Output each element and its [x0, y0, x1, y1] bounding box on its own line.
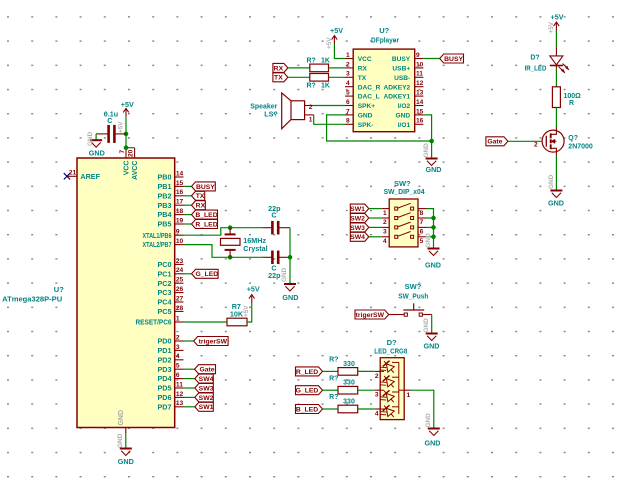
svg-text:12: 12 [416, 80, 424, 87]
svg-text:Q?: Q? [568, 135, 578, 142]
svg-text:10K: 10K [230, 310, 244, 319]
net label B_LED [296, 405, 339, 414]
svg-text:1: 1 [407, 392, 411, 399]
wire R to Q? drain [555, 108, 557, 128]
power +5V (above U?) [121, 100, 134, 117]
U? pin 4 PD2 [158, 353, 184, 364]
svg-text:5: 5 [176, 363, 180, 370]
svg-text:GND: GND [396, 113, 411, 120]
svg-text:GND: GND [281, 267, 288, 282]
ground GND (IR branch) [548, 191, 564, 208]
svg-text:U?: U? [379, 26, 389, 35]
SW? switch row 4 contacts [382, 232, 427, 246]
svg-text:D?: D? [530, 54, 539, 61]
svg-text:22p: 22p [268, 271, 281, 280]
svg-text:PB2: PB2 [158, 191, 172, 200]
svg-text:AREF: AREF [80, 172, 100, 181]
wire speaker pin2 to SPK+ [313, 105, 345, 107]
svg-text:SPK-: SPK- [358, 122, 374, 129]
net label SW3 (PD5) [184, 384, 214, 393]
svg-text:PB5: PB5 [158, 220, 172, 229]
net label RX (PB3) [184, 201, 206, 210]
power +5V (DFplayer) [330, 26, 343, 44]
svg-text:7: 7 [346, 108, 350, 115]
svg-text:IR_LED: IR_LED [525, 66, 547, 73]
U? DFplayer pin 12 ADKEY2 [383, 80, 423, 91]
svg-text:I/O2: I/O2 [398, 103, 411, 110]
wire R7 to +5V [247, 303, 252, 322]
svg-text:B_LED: B_LED [195, 212, 217, 219]
svg-text:27: 27 [176, 295, 184, 302]
svg-text:330: 330 [343, 380, 355, 387]
IC U? DFplayer body [353, 49, 415, 132]
ground GND (DFplayer) [426, 159, 442, 175]
svg-text:B_LED: B_LED [296, 406, 318, 413]
net label BUSY (PB1) [184, 182, 216, 191]
power +5V (IR branch) [551, 13, 564, 31]
U? DFplayer pin 7 GND [345, 108, 373, 119]
svg-text:G_LED: G_LED [196, 271, 219, 278]
svg-text:1: 1 [309, 116, 313, 123]
svg-text:GND: GND [282, 293, 298, 302]
U? pin 20 AVCC (top) [127, 148, 139, 180]
net label Gate (PD3) [184, 365, 216, 374]
U? pin 16 PB2 [158, 189, 184, 200]
ground GND (crystal caps) [282, 284, 298, 302]
U? DFplayer pin 16 I/O1 [398, 118, 424, 129]
svg-text:PD1: PD1 [158, 346, 172, 355]
wire DIP common bus to GND [427, 209, 434, 249]
resistor R? 1K (RX) [307, 58, 330, 72]
svg-text:SW4: SW4 [199, 376, 214, 383]
wire caps to GND [289, 228, 291, 284]
LED array D? body [380, 358, 404, 420]
svg-text:16: 16 [176, 189, 184, 196]
U? pin 19 PB5 [158, 217, 184, 228]
svg-text:330: 330 [343, 398, 355, 405]
power +5V (reset pullup) [247, 285, 260, 304]
svg-text:RX: RX [358, 66, 368, 73]
svg-text:GND: GND [117, 433, 124, 448]
svg-text:VCC: VCC [358, 56, 372, 63]
U? DFplayer pin 2 RX [345, 61, 367, 72]
net label TX (DFplayer) [273, 73, 310, 82]
svg-text:PC1: PC1 [158, 269, 172, 278]
svg-text:330: 330 [343, 361, 355, 368]
svg-text:6: 6 [346, 99, 350, 106]
IC U? ATmega328P-PU body [77, 158, 175, 428]
svg-text:5: 5 [346, 90, 350, 97]
svg-text:TX: TX [358, 75, 367, 82]
net label trigerSW (PD0) [184, 337, 229, 346]
capacitor C 22p (top) [263, 204, 291, 234]
svg-text:SW_Push: SW_Push [398, 291, 428, 300]
svg-text:3: 3 [375, 392, 379, 399]
resistor R 100ohm [552, 87, 581, 108]
svg-text:10: 10 [176, 238, 184, 245]
svg-text:GND: GND [424, 342, 440, 351]
U? pin 3 PD1 [158, 344, 184, 355]
switch SW? SW_Push symbol [389, 303, 432, 316]
U? pin 9 XTAL1/PB6 [143, 229, 184, 240]
svg-text:9: 9 [176, 229, 180, 236]
svg-text:3: 3 [383, 229, 387, 236]
svg-text:GND: GND [423, 318, 430, 333]
svg-text:trigerSW: trigerSW [199, 338, 228, 345]
svg-text:SW2: SW2 [199, 395, 214, 402]
U? pin 6 PD4 [158, 372, 184, 383]
junction crystal top [228, 225, 233, 230]
net label TX (PB2) [184, 191, 205, 200]
SW? switch row 2 contacts [382, 213, 427, 227]
wire DFplayer GND pin7 run [327, 115, 432, 141]
svg-text:PC4: PC4 [158, 298, 172, 307]
svg-text:PD2: PD2 [158, 355, 172, 364]
U? pin 14 PB0 [158, 170, 184, 181]
U? pin 26 PC3 [158, 286, 184, 297]
svg-text:4: 4 [176, 353, 180, 360]
svg-text:4: 4 [383, 238, 387, 245]
svg-text:ADKEY2: ADKEY2 [383, 84, 410, 91]
svg-text:GND: GND [425, 413, 432, 428]
svg-text:Gate: Gate [487, 139, 502, 146]
svg-text:C: C [271, 211, 276, 220]
svg-text:9: 9 [416, 52, 420, 59]
svg-text:8: 8 [346, 118, 350, 125]
svg-text:28: 28 [176, 305, 184, 312]
svg-text:14: 14 [416, 99, 424, 106]
IC U? reference and value fields [2, 285, 64, 303]
svg-text:+5V: +5V [247, 285, 260, 294]
U? DFplayer pin 1 VCC [345, 52, 372, 63]
wire R? to D? pin 2 [358, 371, 381, 379]
svg-text:2: 2 [176, 334, 180, 341]
svg-text:R_LED: R_LED [195, 221, 217, 228]
svg-text:17: 17 [176, 199, 184, 206]
svg-text:+5V: +5V [243, 305, 250, 317]
ground GND (below U?) [118, 433, 134, 466]
crystal Y 16MHz [221, 228, 268, 258]
net label SW2 (PD6) [184, 393, 214, 402]
ground GND (LED array) [425, 429, 441, 448]
wire speaker pin1 to SPK- [314, 115, 345, 124]
svg-text:RX: RX [274, 65, 284, 72]
svg-text:R?: R? [307, 83, 316, 90]
U? pin 1 RESET/PC6 [136, 315, 184, 326]
wire D? pin 1 to GND [404, 390, 434, 428]
U? DFplayer pin 13 ADKEY1 [383, 90, 423, 101]
svg-text:SW1: SW1 [350, 206, 365, 213]
net label G_LED [296, 386, 339, 395]
ghost pin texts [87, 21, 555, 427]
svg-text:15: 15 [176, 180, 184, 187]
svg-text:1: 1 [346, 52, 350, 59]
svg-text:VCC: VCC [124, 161, 131, 176]
U? pin 13 PD7 [158, 400, 184, 411]
junction crystal bottom [228, 255, 233, 260]
svg-text:2N7000: 2N7000 [568, 144, 593, 151]
wire R? to D? pin 4 [358, 409, 381, 417]
svg-text:TX: TX [196, 193, 205, 200]
U? pin 24 PC1 [158, 267, 184, 278]
ground GND (push switch) [424, 334, 440, 351]
wire push switch to GND [431, 315, 433, 334]
svg-text:XTAL1/PB6: XTAL1/PB6 [143, 231, 172, 240]
net label Gate [486, 137, 542, 146]
svg-text:+5V: +5V [330, 26, 343, 35]
svg-text:20: 20 [127, 149, 134, 157]
U? pin 23 PC0 [158, 258, 184, 269]
svg-text:LS?: LS? [264, 109, 278, 118]
svg-text:SW?: SW? [405, 282, 422, 291]
svg-text:2: 2 [383, 219, 387, 226]
svg-text:GND: GND [118, 410, 125, 426]
resistor R? 330 (B_LED) [329, 394, 358, 413]
svg-text:DAC_L: DAC_L [358, 94, 380, 101]
svg-text:SW2: SW2 [350, 215, 365, 222]
capacitor C 22p (bottom) [263, 251, 291, 280]
junction DFplayer ground node [429, 139, 434, 144]
wire DFplayer GND pin15 down [423, 115, 431, 159]
svg-text:3: 3 [176, 344, 180, 351]
svg-text:R?: R? [329, 375, 338, 382]
net label SW4 (DIP) [350, 232, 382, 241]
svg-text:SW1: SW1 [199, 404, 214, 411]
resistor R? 330 (R_LED) [329, 357, 358, 376]
U? pin 12 PD6 [158, 391, 184, 402]
svg-text:+5V: +5V [326, 37, 333, 49]
U? pin 7 VCC (top) [119, 148, 131, 175]
svg-text:Crystal: Crystal [243, 244, 267, 253]
SW? switch row 1 contacts [382, 203, 427, 217]
svg-text:PC0: PC0 [158, 260, 172, 269]
svg-text:24: 24 [176, 267, 184, 274]
svg-text:1: 1 [383, 210, 387, 217]
svg-text:11: 11 [416, 71, 423, 78]
svg-text:GND: GND [425, 233, 432, 248]
U? DFplayer pin 11 USB- [394, 71, 423, 82]
U? pin 2 PD0 [158, 334, 184, 345]
svg-text:GND: GND [425, 261, 441, 270]
wire IR LED to R [555, 69, 557, 87]
svg-text:GND: GND [426, 165, 442, 174]
junction 22p bottom [288, 255, 293, 260]
wire +5V to DFplayer VCC [334, 44, 345, 59]
wire cap to GND [95, 134, 97, 140]
svg-text:21: 21 [69, 169, 77, 176]
svg-text:PD7: PD7 [158, 402, 172, 411]
U? DFplayer pin 8 SPK- [345, 118, 373, 129]
svg-text:SPK+: SPK+ [358, 103, 376, 110]
U? pin 15 PB1 [158, 180, 184, 191]
svg-text:GND: GND [358, 113, 373, 120]
wire XTAL2 to crystal [184, 245, 263, 258]
svg-text:3: 3 [346, 71, 350, 78]
svg-text:PB1: PB1 [158, 182, 172, 191]
svg-text:18: 18 [176, 208, 184, 215]
svg-text:SW_DIP_x04: SW_DIP_x04 [384, 187, 426, 196]
svg-text:GND: GND [425, 439, 441, 448]
svg-text:USB-: USB- [394, 75, 410, 82]
speaker LS? symbol [250, 93, 313, 129]
svg-text:GND: GND [89, 149, 105, 158]
U? DFplayer pin 3 TX [345, 71, 367, 82]
svg-text:SW3: SW3 [350, 225, 365, 232]
svg-text:R: R [569, 100, 574, 107]
svg-text:14: 14 [176, 170, 184, 177]
svg-text:+5V: +5V [121, 100, 134, 109]
U? DFplayer pin 4 DAC_R [345, 80, 381, 91]
U? DFplayer pin 6 SPK+ [345, 99, 375, 110]
svg-text:7: 7 [119, 150, 126, 154]
junctions DIP bus [431, 216, 436, 239]
svg-text:2: 2 [346, 61, 350, 68]
U? DFplayer pin 9 BUSY [392, 52, 424, 63]
svg-text:ADKEY1: ADKEY1 [383, 94, 410, 101]
svg-text:1K: 1K [321, 58, 330, 65]
U? pin 18 PB4 [158, 208, 184, 219]
svg-text:C: C [107, 116, 112, 125]
U? pin 11 PD5 [158, 381, 184, 392]
svg-text:GND: GND [87, 131, 94, 146]
wire +5V to IR LED [555, 31, 557, 47]
U? pin 10 XTAL2/PB7 [143, 238, 184, 249]
net label SW3 (DIP) [350, 223, 382, 232]
svg-text:ATmega328P-PU: ATmega328P-PU [2, 295, 62, 304]
svg-text:26: 26 [176, 286, 184, 293]
wire Q? source to GND [555, 156, 557, 191]
U? pin 17 PB3 [158, 199, 184, 210]
net label R_LED [296, 367, 339, 376]
svg-text:PD5: PD5 [158, 384, 172, 393]
svg-text:5: 5 [420, 238, 424, 245]
svg-text:RESET/PC6: RESET/PC6 [136, 318, 172, 327]
ghost label +5V vertical [118, 121, 125, 133]
svg-text:15: 15 [416, 108, 424, 115]
switch SW? SW_DIP_x04 body [389, 199, 418, 247]
U? pin 28 PC5 [158, 305, 184, 316]
LED array internal diodes [378, 358, 405, 422]
svg-text:25: 25 [176, 277, 184, 284]
svg-text:DFplayer: DFplayer [371, 36, 399, 45]
svg-text:19: 19 [176, 217, 184, 224]
capacitor C 0.1u [96, 109, 126, 143]
svg-text:100Ω: 100Ω [564, 93, 582, 100]
svg-text:13: 13 [416, 90, 424, 97]
junction at VCC node [124, 132, 129, 150]
U? DFplayer pin 14 I/O2 [398, 99, 424, 110]
svg-text:GND: GND [423, 143, 430, 158]
svg-text:BUSY: BUSY [392, 56, 411, 63]
svg-text:PD4: PD4 [158, 374, 172, 383]
svg-text:AVCC: AVCC [132, 161, 139, 180]
wire R? to D? pin 3 [358, 390, 381, 398]
svg-text:PB4: PB4 [158, 210, 172, 219]
svg-text:PD0: PD0 [158, 337, 172, 346]
SW? fields [384, 179, 426, 196]
svg-text:GND: GND [548, 174, 555, 189]
svg-text:PC5: PC5 [158, 307, 172, 316]
U? DFplayer pin 15 GND [396, 108, 424, 119]
svg-text:LED_CRG8: LED_CRG8 [374, 346, 407, 355]
svg-text:8: 8 [420, 210, 424, 217]
svg-text:USB+: USB+ [392, 66, 410, 73]
svg-text:R?: R? [329, 394, 338, 401]
wire RESET to R7 [184, 321, 228, 323]
wire R? to DFplayer TX [329, 76, 346, 78]
net label BUSY (DFplayer) [423, 54, 463, 63]
SW? SW_Push fields [398, 282, 428, 300]
svg-text:RX: RX [196, 203, 206, 210]
net label RX (DFplayer) [273, 63, 310, 72]
svg-text:R?: R? [307, 58, 316, 65]
wire XTAL1 to crystal [184, 228, 263, 236]
svg-text:4: 4 [375, 410, 379, 417]
svg-text:PC3: PC3 [158, 288, 172, 297]
svg-text:BUSY: BUSY [196, 184, 215, 191]
U? DFplayer pin 10 USB+ [392, 61, 423, 72]
U? DFplayer pin 5 DAC_L [345, 90, 380, 101]
svg-text:U?: U? [54, 285, 64, 294]
ground GND (decoupling cap) [89, 140, 105, 157]
svg-text:6: 6 [176, 372, 180, 379]
svg-text:1K: 1K [321, 83, 330, 90]
svg-text:+5V: +5V [551, 13, 564, 22]
net label SW1 (PD7) [184, 402, 214, 411]
U? pin 8 GND (bottom) [117, 410, 126, 448]
wire R? to DFplayer RX [329, 67, 346, 69]
svg-text:4: 4 [346, 80, 350, 87]
svg-text:Gate: Gate [199, 367, 214, 374]
svg-text:PB3: PB3 [158, 201, 172, 210]
U? pin 21 AREF (no connect) [64, 169, 101, 181]
transistor Q? 2N7000 [534, 127, 593, 156]
resistor R7 10K [227, 302, 247, 326]
svg-text:7: 7 [420, 219, 424, 226]
svg-text:XTAL2/PB7: XTAL2/PB7 [143, 240, 172, 249]
svg-text:23: 23 [176, 258, 184, 265]
IC U? DFplayer fields [371, 26, 399, 45]
svg-text:BUSY: BUSY [444, 56, 463, 63]
svg-text:10: 10 [416, 61, 424, 68]
svg-text:PB0: PB0 [158, 173, 172, 182]
U? pin 27 PC4 [158, 295, 184, 306]
net label B_LED (PB4) [184, 210, 218, 219]
resistor R? 1K (TX) [307, 74, 330, 90]
svg-text:G_LED: G_LED [296, 388, 319, 395]
net label trigerSW (push) [355, 310, 389, 319]
wire +5V down to VCC/AVCC [126, 117, 135, 148]
svg-text:SW3: SW3 [199, 385, 214, 392]
U? pin 25 PC2 [158, 277, 184, 288]
ground GND (DIP) [425, 249, 441, 270]
svg-text:SW4: SW4 [350, 234, 365, 241]
svg-text:I/O1: I/O1 [398, 122, 411, 129]
svg-text:trigerSW: trigerSW [356, 312, 385, 319]
svg-text:PD3: PD3 [158, 365, 172, 374]
U? pin 5 PD3 [158, 363, 184, 374]
svg-text:GND: GND [118, 457, 134, 466]
LED D? IR_LED [525, 47, 569, 73]
net label R_LED (PB5) [184, 220, 218, 229]
svg-text:+5V: +5V [118, 121, 125, 133]
resistor R? 330 (G_LED) [329, 375, 358, 394]
svg-text:6: 6 [420, 229, 424, 236]
svg-text:DAC_R: DAC_R [358, 84, 381, 91]
svg-text:2: 2 [375, 373, 379, 380]
svg-text:R_LED: R_LED [296, 369, 318, 376]
svg-text:2: 2 [534, 141, 538, 148]
